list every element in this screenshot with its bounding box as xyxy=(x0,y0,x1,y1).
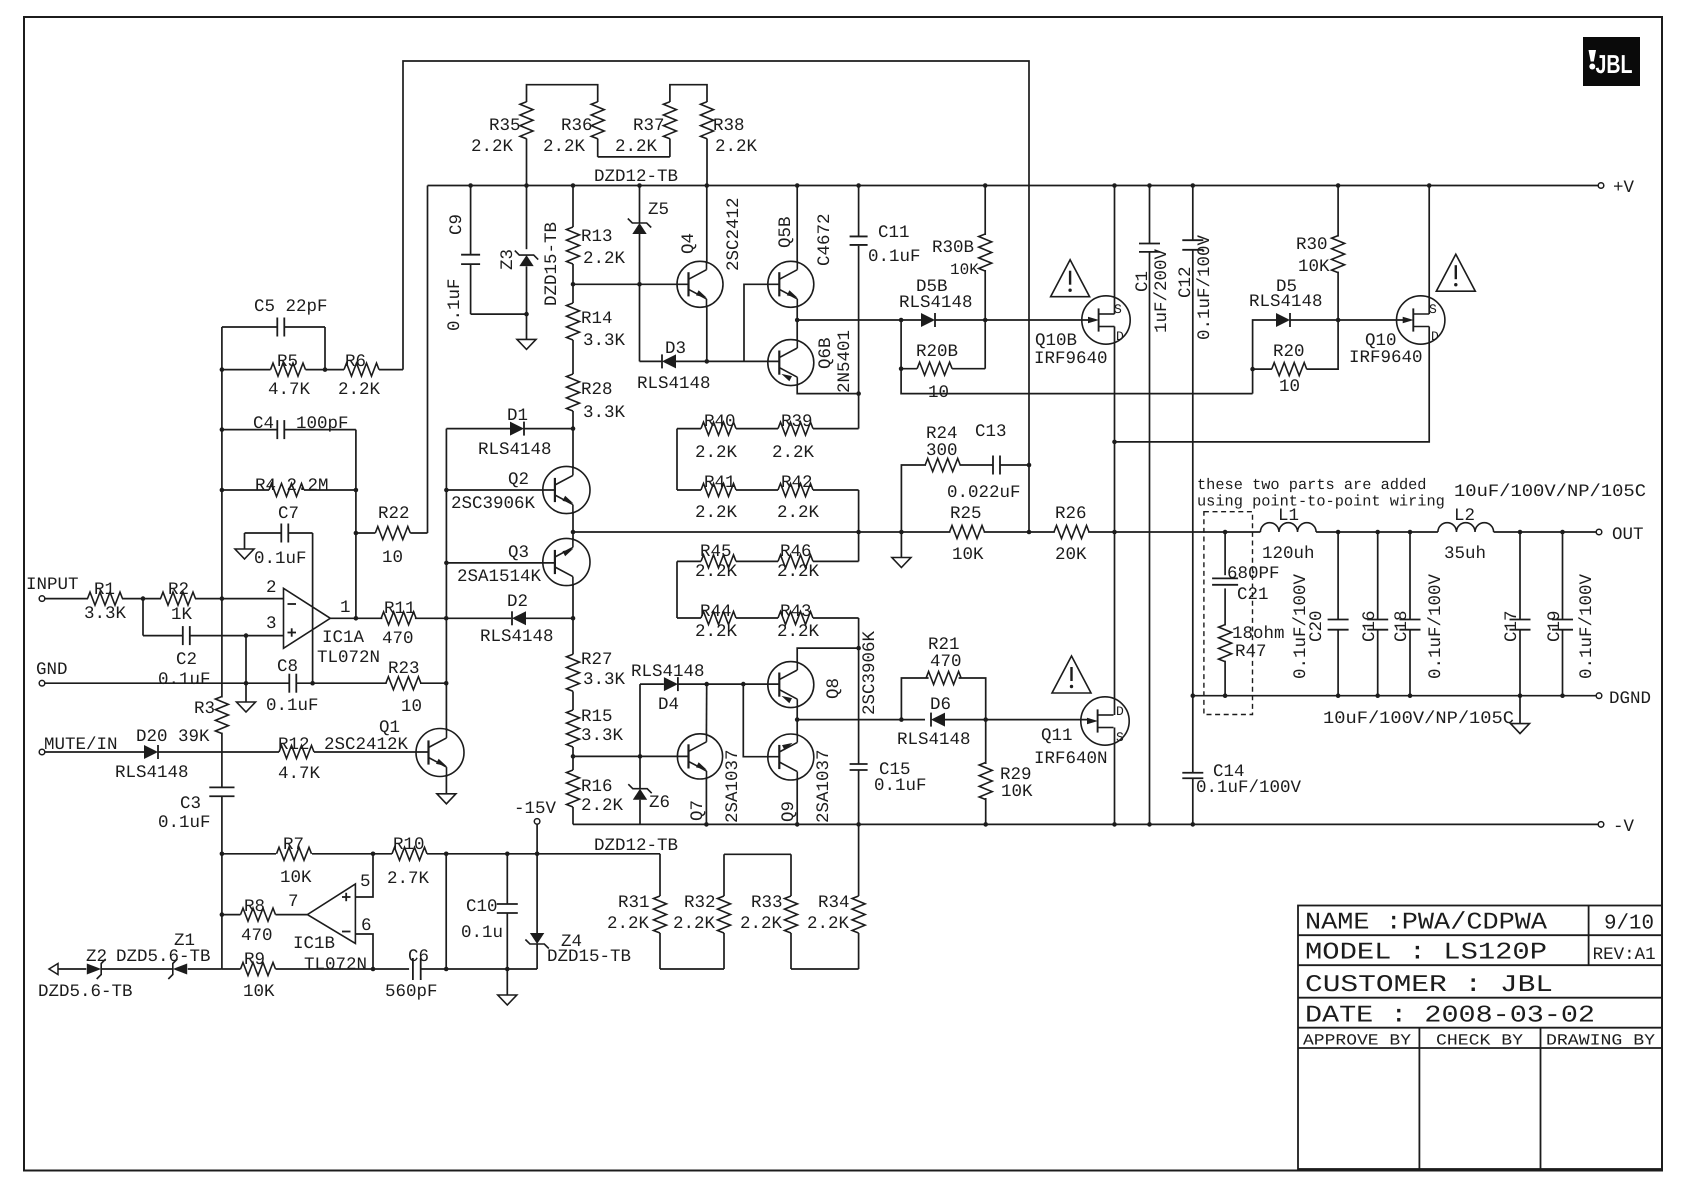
svg-text:2SA1037: 2SA1037 xyxy=(814,749,834,823)
svg-text:470: 470 xyxy=(930,652,962,672)
resistor R2 xyxy=(161,592,196,605)
svg-text:GND: GND xyxy=(36,660,68,680)
svg-text:Z5: Z5 xyxy=(648,200,669,220)
svg-text:R45: R45 xyxy=(700,542,732,562)
wire base link Q8 Q9 xyxy=(743,684,779,757)
wire Q8 emitter xyxy=(796,707,798,720)
resistor R43 xyxy=(777,602,859,648)
resistor R28 xyxy=(567,340,626,429)
diode D3 wire xyxy=(640,360,663,362)
wire Q9 emitter xyxy=(796,720,798,735)
wire GND to C8 xyxy=(45,682,289,684)
wire C8 to R23 xyxy=(297,682,387,684)
resistor R44 xyxy=(677,602,738,642)
svg-text:Q1: Q1 xyxy=(379,718,400,738)
resistor R46 xyxy=(777,532,859,582)
transistor Q9 xyxy=(768,734,814,780)
svg-text:C5 22pF: C5 22pF xyxy=(254,297,328,317)
svg-text:IC1A: IC1A xyxy=(322,628,365,648)
resistor R27 xyxy=(567,618,626,691)
svg-text:R47: R47 xyxy=(1235,642,1267,662)
svg-text:3.3K: 3.3K xyxy=(84,604,127,624)
svg-text:R2: R2 xyxy=(168,580,189,600)
svg-text:1uF/200V: 1uF/200V xyxy=(1152,248,1172,333)
wire R44 to R43 xyxy=(736,617,778,619)
terminal -V xyxy=(1598,822,1604,828)
resistor R7 xyxy=(277,847,312,860)
wire D1 row xyxy=(446,428,510,430)
wire R36-R37 bottom bracket xyxy=(598,156,670,158)
svg-text:C19: C19 xyxy=(1545,610,1565,642)
svg-text:R30B: R30B xyxy=(932,238,974,258)
wire node to D2 xyxy=(446,617,511,619)
svg-text:2.2K: 2.2K xyxy=(777,503,820,523)
wire Q7 emitter xyxy=(705,779,707,825)
wire pin3 to ground xyxy=(245,636,247,702)
svg-text:D2: D2 xyxy=(507,592,528,612)
capacitor C8 xyxy=(288,674,290,693)
svg-text:L2: L2 xyxy=(1454,506,1475,526)
svg-text:S: S xyxy=(1116,730,1124,745)
wire Q4 base row xyxy=(573,283,689,285)
svg-text:C18: C18 xyxy=(1392,610,1412,642)
svg-text:C11: C11 xyxy=(878,223,910,243)
svg-text:2.2K: 2.2K xyxy=(583,249,626,269)
ground near C7 xyxy=(235,549,254,559)
svg-text:2.7K: 2.7K xyxy=(387,869,430,889)
svg-text:C3: C3 xyxy=(180,794,201,814)
wire DGND rail xyxy=(1193,695,1597,697)
resistor R45 xyxy=(677,542,738,582)
svg-text:2.2K: 2.2K xyxy=(807,914,850,934)
svg-text:-V: -V xyxy=(1613,817,1635,837)
svg-text:C13: C13 xyxy=(975,422,1007,442)
svg-text:R32: R32 xyxy=(684,893,716,913)
terminal -15V xyxy=(514,799,557,933)
wire R12 to Q1 base xyxy=(314,751,429,753)
zener Z4 xyxy=(525,932,631,969)
wire Q9 collector xyxy=(796,779,798,824)
svg-text:4.7K: 4.7K xyxy=(268,380,311,400)
svg-text:C4: C4 xyxy=(253,414,274,434)
wire Q3 collector xyxy=(572,584,574,618)
terminal +V xyxy=(1598,183,1604,189)
wire R9 row xyxy=(222,968,409,970)
svg-text:D20 39K: D20 39K xyxy=(136,727,210,747)
wire R31-R32 bottom bracket xyxy=(660,968,724,970)
ground Q1 emitter xyxy=(437,794,456,804)
svg-text:C9: C9 xyxy=(447,214,467,235)
svg-text:Q9: Q9 xyxy=(779,801,799,822)
capacitor C1 xyxy=(1133,183,1172,827)
resistor R13 xyxy=(567,183,626,269)
wire D5 to Q10 gate xyxy=(1290,319,1406,321)
wire R40-R41 left bracket xyxy=(676,429,678,490)
svg-text:RLS4148: RLS4148 xyxy=(480,627,554,647)
svg-text:3: 3 xyxy=(266,614,277,634)
resistor R22 xyxy=(354,186,428,569)
svg-text:R44: R44 xyxy=(700,602,732,622)
ground near pin3 xyxy=(237,702,256,712)
zener Z1 xyxy=(101,931,222,979)
wire D6 to gate xyxy=(945,719,1090,721)
wire R41 to R42 xyxy=(736,489,778,491)
svg-text:DZD15-TB: DZD15-TB xyxy=(547,947,631,967)
svg-text:R3: R3 xyxy=(194,699,215,719)
wire left feedback vertical xyxy=(220,327,225,969)
warning triangle Q10 xyxy=(1436,254,1475,291)
svg-text:2.2K: 2.2K xyxy=(543,137,586,157)
wire D1 to R28 node xyxy=(524,428,573,430)
svg-text:C21: C21 xyxy=(1237,585,1269,605)
svg-text:R28: R28 xyxy=(581,380,613,400)
svg-text:Z3: Z3 xyxy=(498,249,518,270)
wire Q2 collector xyxy=(572,429,574,468)
svg-text:IC1B: IC1B xyxy=(293,934,335,954)
wire global feedback top xyxy=(403,61,1029,532)
resistor R20B xyxy=(901,320,985,403)
mosfet Q11 xyxy=(1081,697,1129,745)
svg-text:C8: C8 xyxy=(277,657,298,677)
wire R40 to R39 xyxy=(736,428,778,430)
transistor Q7 xyxy=(677,734,722,779)
svg-text:Q2: Q2 xyxy=(508,470,529,490)
title block xyxy=(1298,906,1662,1170)
svg-text:2.2K: 2.2K xyxy=(777,562,820,582)
resistor R31 xyxy=(607,854,667,969)
resistor R40 xyxy=(677,412,738,463)
svg-text:560pF: 560pF xyxy=(385,982,438,1002)
transistor Q4 xyxy=(677,261,723,307)
svg-text:R38: R38 xyxy=(713,116,745,136)
svg-text:R40: R40 xyxy=(704,412,736,432)
svg-text:0.1uF/100V: 0.1uF/100V xyxy=(1426,573,1446,679)
wire IC1A output xyxy=(330,617,382,619)
svg-text:R20B: R20B xyxy=(916,342,958,362)
diode D20 xyxy=(144,745,158,759)
diode D5 wire xyxy=(1253,320,1276,394)
transistor Q8 xyxy=(768,662,814,708)
svg-text:C1: C1 xyxy=(1133,271,1153,292)
transistor Q6B xyxy=(768,340,814,386)
svg-text:+V: +V xyxy=(1613,178,1635,198)
wire Q3 base xyxy=(446,562,555,564)
wire Q7 collector xyxy=(705,684,707,734)
svg-text:D: D xyxy=(1431,329,1439,344)
wire Q3 emitter xyxy=(572,532,574,540)
resistor R47 xyxy=(1219,624,1285,698)
capacitor C2 xyxy=(182,626,184,645)
svg-text:2SA1514K: 2SA1514K xyxy=(457,567,542,587)
svg-text:2.2K: 2.2K xyxy=(673,914,716,934)
wire mute to D20 xyxy=(45,751,144,753)
svg-text:R12: R12 xyxy=(278,735,310,755)
wire Q5B emitter node to D5B xyxy=(797,319,921,321)
svg-text:R43: R43 xyxy=(780,602,812,622)
wire -V bus xyxy=(573,823,1598,825)
svg-text:2SC3906K: 2SC3906K xyxy=(451,494,536,514)
resistor R8 xyxy=(241,908,276,921)
svg-text:RLS4148: RLS4148 xyxy=(115,763,189,783)
svg-text:R16: R16 xyxy=(581,777,613,797)
svg-text:JBL: JBL xyxy=(1596,49,1633,79)
wire D5B to Q10B gate xyxy=(935,319,1091,321)
svg-text:3.3K: 3.3K xyxy=(581,726,624,746)
svg-text:R25: R25 xyxy=(950,504,982,524)
svg-text:2.2K: 2.2K xyxy=(777,622,820,642)
svg-text:0.022uF: 0.022uF xyxy=(947,483,1021,503)
svg-text:R31: R31 xyxy=(618,893,650,913)
wire Q8 collector xyxy=(797,648,858,662)
resistor R21 xyxy=(901,635,985,720)
svg-text:R7: R7 xyxy=(283,835,304,855)
wire Q7 base row xyxy=(573,755,689,757)
svg-text:R41: R41 xyxy=(704,473,736,493)
svg-text:10: 10 xyxy=(401,697,422,717)
zener Z6 xyxy=(628,756,670,824)
svg-text:0.1uF/100V: 0.1uF/100V xyxy=(1195,234,1215,340)
capacitor C12 xyxy=(1176,183,1215,698)
svg-text:0.1uF: 0.1uF xyxy=(445,278,465,331)
svg-text:REV:A1: REV:A1 xyxy=(1593,945,1656,965)
diode D1 xyxy=(510,422,524,436)
svg-text:1: 1 xyxy=(340,598,351,618)
svg-text:0.1uF: 0.1uF xyxy=(874,776,927,796)
resistor R34 xyxy=(807,824,865,969)
wire D3 to Q4 emitter node xyxy=(676,360,744,362)
svg-text:2.2K: 2.2K xyxy=(338,380,381,400)
svg-text:TL072N: TL072N xyxy=(304,955,367,975)
svg-text:0.1uF: 0.1uF xyxy=(868,247,921,267)
ground C10 xyxy=(498,995,517,1005)
zener Z2 xyxy=(38,947,133,1002)
svg-text:7: 7 xyxy=(288,892,299,912)
svg-text:R23: R23 xyxy=(388,659,420,679)
svg-text:R42: R42 xyxy=(781,473,813,493)
svg-text:680PF: 680PF xyxy=(1227,564,1280,584)
svg-text:DZD12-TB: DZD12-TB xyxy=(594,836,678,856)
svg-text:470: 470 xyxy=(382,629,414,649)
dashed box xyxy=(1204,512,1253,715)
warning triangle Q11 xyxy=(1052,656,1091,693)
wire R45 to R46 xyxy=(736,560,778,562)
wire Q4 emitter xyxy=(706,306,708,361)
resistor R26 xyxy=(1054,526,1089,539)
svg-text:2.2K: 2.2K xyxy=(695,443,738,463)
svg-text:3.3K: 3.3K xyxy=(583,670,626,690)
svg-text:6: 6 xyxy=(361,916,372,936)
resistor R36 xyxy=(543,102,604,157)
terminal GND xyxy=(39,680,45,686)
svg-text:DGND: DGND xyxy=(1609,689,1651,709)
wire Q10B drain xyxy=(1114,327,1116,716)
diode D2 xyxy=(512,611,526,625)
wire IC1B pin6 xyxy=(355,934,373,969)
svg-text:C6: C6 xyxy=(408,947,429,967)
resistor R4 xyxy=(222,476,358,497)
transistor Q3 xyxy=(543,538,590,585)
svg-text:D4: D4 xyxy=(658,695,679,715)
svg-text:0.1uF/100V: 0.1uF/100V xyxy=(1196,778,1302,798)
wire D2 to Q3 collector xyxy=(526,617,573,619)
svg-text:DATE : 2008-03-02: DATE : 2008-03-02 xyxy=(1305,1002,1595,1029)
resistor R41 xyxy=(677,473,738,523)
svg-text:NAME :PWA/CDPWA: NAME :PWA/CDPWA xyxy=(1305,910,1548,937)
svg-text:2: 2 xyxy=(266,578,277,598)
svg-text:MODEL : LS120P: MODEL : LS120P xyxy=(1305,940,1547,967)
wire R7 R10 node pin5 xyxy=(355,852,375,898)
resistor R10 xyxy=(392,847,427,860)
op-amp IC1A xyxy=(266,578,380,668)
terminal MUTE/IN xyxy=(39,749,45,755)
mosfet Q10B xyxy=(1082,296,1130,344)
wire C2 to pin3 xyxy=(190,635,284,637)
svg-text:10: 10 xyxy=(928,383,949,403)
svg-text:0.1uF: 0.1uF xyxy=(266,696,319,716)
svg-text:-15V: -15V xyxy=(514,799,557,819)
resistor R3 xyxy=(215,697,228,734)
svg-text:10: 10 xyxy=(382,548,403,568)
resistor R29 xyxy=(979,720,1033,827)
svg-text:R36: R36 xyxy=(561,116,593,136)
wire IC1B output to R8 xyxy=(276,914,308,916)
capacitor C9 xyxy=(445,183,529,331)
svg-text:R33: R33 xyxy=(751,893,783,913)
svg-text:2.2K: 2.2K xyxy=(615,137,658,157)
svg-text:5: 5 xyxy=(360,872,371,892)
transistor Q1 xyxy=(416,729,464,777)
svg-text:DZD12-TB: DZD12-TB xyxy=(594,167,678,187)
capacitor C10 xyxy=(461,852,518,996)
svg-text:2.2K: 2.2K xyxy=(607,914,650,934)
capacitor C6 xyxy=(412,958,414,980)
svg-text:D: D xyxy=(1116,704,1124,719)
svg-text:R46: R46 xyxy=(780,542,812,562)
mosfet Q10 xyxy=(1397,296,1445,344)
op-amp IC1B xyxy=(288,872,372,975)
svg-text:R35: R35 xyxy=(489,116,521,136)
svg-text:RLS4148: RLS4148 xyxy=(899,293,973,313)
wire Q10 source xyxy=(1428,186,1430,315)
svg-text:IRF9640: IRF9640 xyxy=(1034,349,1108,369)
wire OUT rail xyxy=(573,531,1596,533)
svg-text:10K: 10K xyxy=(952,545,984,565)
terminal INPUT xyxy=(39,596,45,602)
capacitor C18 xyxy=(1392,530,1421,698)
resistor R9 xyxy=(241,963,276,976)
wire input to R1 xyxy=(45,598,88,600)
svg-text:18ohm: 18ohm xyxy=(1232,624,1285,644)
capacitor C11 xyxy=(850,183,921,267)
svg-text:R5: R5 xyxy=(277,352,298,372)
svg-text:10K: 10K xyxy=(1001,782,1033,802)
svg-text:0.1uF: 0.1uF xyxy=(158,670,211,690)
svg-text:RLS4148: RLS4148 xyxy=(897,730,971,750)
svg-text:0.1uF/100V: 0.1uF/100V xyxy=(1291,573,1311,679)
svg-text:Q10B: Q10B xyxy=(1035,331,1077,351)
svg-text:APPROVE BY: APPROVE BY xyxy=(1303,1032,1412,1050)
warning triangle Q10B xyxy=(1051,260,1090,297)
resistor R11 xyxy=(381,612,416,625)
svg-text:C10: C10 xyxy=(466,897,498,917)
zener Z5 xyxy=(628,183,669,361)
capacitor C15 xyxy=(850,648,927,827)
wire C10 junction to Z4 xyxy=(507,968,537,970)
svg-text:RLS4148: RLS4148 xyxy=(637,374,711,394)
resistor R35 xyxy=(471,85,598,188)
svg-text:DRAWING BY: DRAWING BY xyxy=(1546,1032,1656,1050)
resistor R6 xyxy=(325,352,403,400)
wire -15V line with R7 R10 xyxy=(222,853,660,855)
wire R20B left leg xyxy=(901,320,1253,394)
svg-text:R22: R22 xyxy=(378,504,410,524)
svg-text:R13: R13 xyxy=(581,227,613,247)
wire Q5B emitter to Q6B collector xyxy=(796,306,798,340)
wire R23 to node xyxy=(420,682,446,684)
svg-text:2.2K: 2.2K xyxy=(772,443,815,463)
inductor L1 xyxy=(1260,523,1316,532)
svg-text:0.1uF/100V: 0.1uF/100V xyxy=(1577,573,1597,679)
svg-text:DZD15-TB: DZD15-TB xyxy=(542,222,562,306)
wire Q11 source xyxy=(1114,728,1116,825)
wire R1 to R2 xyxy=(122,598,161,600)
svg-text:0.1uF: 0.1uF xyxy=(158,813,211,833)
svg-text:R26: R26 xyxy=(1055,504,1087,524)
svg-text:these two parts are added: these two parts are added xyxy=(1197,476,1427,494)
svg-text:C2: C2 xyxy=(176,650,197,670)
capacitor C20 xyxy=(1307,530,1349,698)
zener Z3 xyxy=(498,186,562,340)
terminal OUT xyxy=(1596,529,1602,535)
capacitor C3 xyxy=(158,787,235,833)
svg-text:Q3: Q3 xyxy=(508,543,529,563)
resistor R32 xyxy=(673,854,731,969)
transistor Q2 xyxy=(543,466,590,513)
svg-text:R20: R20 xyxy=(1273,342,1305,362)
capacitor C7 xyxy=(245,504,313,683)
resistor R30 xyxy=(1296,183,1345,320)
svg-text:C4672: C4672 xyxy=(815,213,835,266)
svg-text:D: D xyxy=(1116,329,1124,344)
svg-text:1K: 1K xyxy=(171,605,193,625)
diode D4 wire xyxy=(640,684,664,756)
svg-text:R11: R11 xyxy=(384,599,416,619)
svg-text:Q11: Q11 xyxy=(1041,726,1073,746)
svg-text:20K: 20K xyxy=(1055,545,1087,565)
wire R45-R44 left bracket xyxy=(676,561,678,618)
svg-text:Q5B: Q5B xyxy=(776,216,796,248)
resistor R42 xyxy=(777,473,861,534)
transistor Q5B xyxy=(768,261,814,307)
off-page arrow xyxy=(49,964,58,975)
svg-text:10uF/100V/NP/105C: 10uF/100V/NP/105C xyxy=(1454,482,1646,502)
svg-text:R27: R27 xyxy=(581,650,613,670)
svg-text:0.1u: 0.1u xyxy=(461,923,503,943)
svg-text:2SC2412: 2SC2412 xyxy=(724,197,744,271)
svg-text:3.3K: 3.3K xyxy=(583,331,626,351)
wire C11 R39 vertical xyxy=(858,246,860,429)
svg-text:Q8: Q8 xyxy=(824,678,844,699)
resistor R33 xyxy=(740,854,798,969)
svg-text:10K: 10K xyxy=(950,261,979,279)
svg-text:RLS4148: RLS4148 xyxy=(1249,292,1323,312)
svg-text:100pF: 100pF xyxy=(296,414,349,434)
svg-text:2.2K: 2.2K xyxy=(695,562,738,582)
svg-text:IRF640N: IRF640N xyxy=(1034,749,1108,769)
svg-text:R30: R30 xyxy=(1296,235,1328,255)
wire Q6B emitter xyxy=(797,385,858,394)
wire Q1 emitter to ground xyxy=(445,775,447,794)
